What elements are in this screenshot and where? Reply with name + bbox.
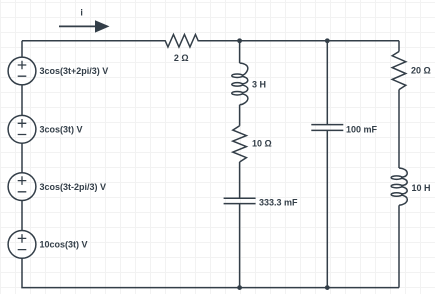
svg-text:100 mF: 100 mF xyxy=(346,125,378,135)
svg-text:20 Ω: 20 Ω xyxy=(411,66,431,76)
svg-text:3cos(3t+2pi/3) V: 3cos(3t+2pi/3) V xyxy=(40,66,109,76)
svg-text:3 H: 3 H xyxy=(252,80,266,90)
svg-text:i: i xyxy=(80,7,83,17)
svg-text:2 Ω: 2 Ω xyxy=(174,53,189,63)
svg-text:10 Ω: 10 Ω xyxy=(252,138,272,148)
svg-text:3cos(3t) V: 3cos(3t) V xyxy=(40,125,83,135)
svg-text:10 H: 10 H xyxy=(412,183,431,193)
svg-text:333.3 mF: 333.3 mF xyxy=(259,198,298,208)
svg-text:10cos(3t) V: 10cos(3t) V xyxy=(40,240,88,250)
svg-text:3cos(3t-2pi/3) V: 3cos(3t-2pi/3) V xyxy=(40,182,107,192)
